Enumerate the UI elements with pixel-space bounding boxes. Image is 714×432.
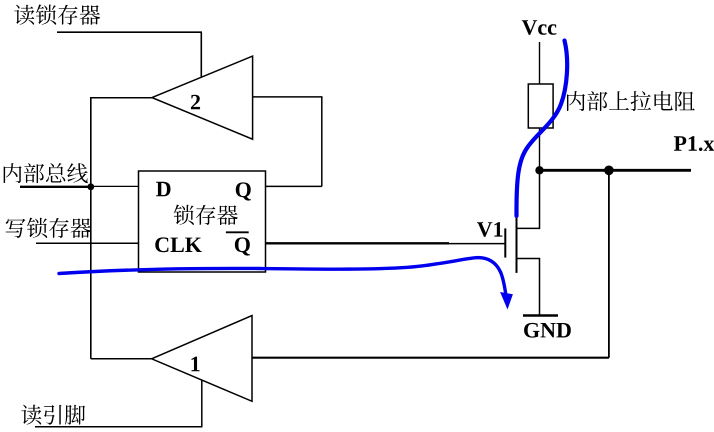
pin label CLK bbox=[155, 237, 201, 252]
wire: buffer U2 output to left vertical bbox=[90, 97, 152, 99]
ground symbol bbox=[523, 314, 558, 316]
wire: bus to latch D input bbox=[91, 185, 139, 187]
wire: P1.x pin line (thick) bbox=[540, 169, 692, 172]
node: pin junction dot bbox=[604, 166, 614, 176]
annotation: long blue curve from left to FET bbox=[59, 258, 506, 293]
buffer U2 (tri-state, points left) bbox=[152, 56, 253, 139]
label Vcc bbox=[522, 20, 557, 35]
label 内部上拉电阻 (internal pull-up resistor) bbox=[567, 91, 695, 111]
wire: vertical x=322 from buffer-2 input down to latch Q level bbox=[321, 97, 323, 186]
wire: resistor bottom to P1.x node bbox=[539, 128, 541, 170]
node: bus junction dot bbox=[87, 183, 94, 190]
pin label Q bbox=[236, 182, 251, 200]
label GND bbox=[524, 323, 571, 338]
label P1.x bbox=[674, 136, 714, 151]
wire: latch Q-bar output line (thick part) bbox=[266, 242, 450, 244]
pin label D bbox=[156, 182, 170, 196]
wire: 内部总线 thick lead line bbox=[20, 186, 91, 188]
wire: vertical from pin node down to buffer-1 input line bbox=[608, 170, 610, 357]
wire: Q-bar line thin part to FET gate bbox=[449, 243, 505, 245]
label 2 inside buffer U2 bbox=[191, 95, 200, 110]
transistor V1: channel bar bbox=[516, 216, 518, 273]
transistor V1: drain stub bbox=[517, 170, 540, 228]
wire: vertical from 读锁存器 line down to buffer-2 enable bbox=[200, 32, 202, 77]
pin label Q-bar bbox=[235, 237, 250, 255]
annotation: blue S-curve near pull-up resistor bbox=[516, 41, 567, 217]
wire: buffer U2 input from right, to x=322 bbox=[253, 96, 323, 98]
label 读锁存器 (read latch) bbox=[14, 4, 100, 24]
overline of Q-bar bbox=[226, 231, 249, 233]
label 读引脚 (read pin) bbox=[21, 405, 85, 425]
wire: latch Q output to vertical x=322 bbox=[266, 185, 322, 187]
wire: 读锁存器 label line (horizontal) bbox=[57, 31, 202, 33]
wire: Vcc lead down to resistor bbox=[539, 42, 541, 84]
wire: 读引脚 label line bbox=[35, 426, 203, 428]
transistor V1: gate bar bbox=[504, 228, 506, 257]
label 内部总线 (internal bus) bbox=[4, 163, 88, 183]
label 1 inside buffer U1 bbox=[191, 357, 199, 372]
node: drain junction dot bbox=[535, 166, 543, 174]
wire: buffer-1 input line from pin bbox=[252, 357, 609, 359]
annotation: blue arrowhead bbox=[500, 292, 513, 310]
label V1 (FET designator) bbox=[477, 222, 503, 237]
buffer U1 (points left) bbox=[152, 316, 252, 402]
wire: 写锁存器 line to latch CLK bbox=[36, 242, 139, 244]
resistor R1 (internal pull-up) bbox=[528, 84, 553, 128]
wire: internal bus vertical (x=91) from buffer-2 output down to buffer-1 output bbox=[90, 98, 92, 359]
label 写锁存器 (write latch) bbox=[6, 218, 92, 238]
latch U3 box bbox=[139, 171, 266, 272]
transistor V1: source stub bbox=[517, 259, 540, 316]
wire: buffer U1 output to bus vertical bbox=[91, 358, 152, 360]
wire: vertical from buffer-1 enable down to 读引脚 line bbox=[201, 380, 203, 427]
label 锁存器 (latch) inside box bbox=[174, 205, 238, 225]
